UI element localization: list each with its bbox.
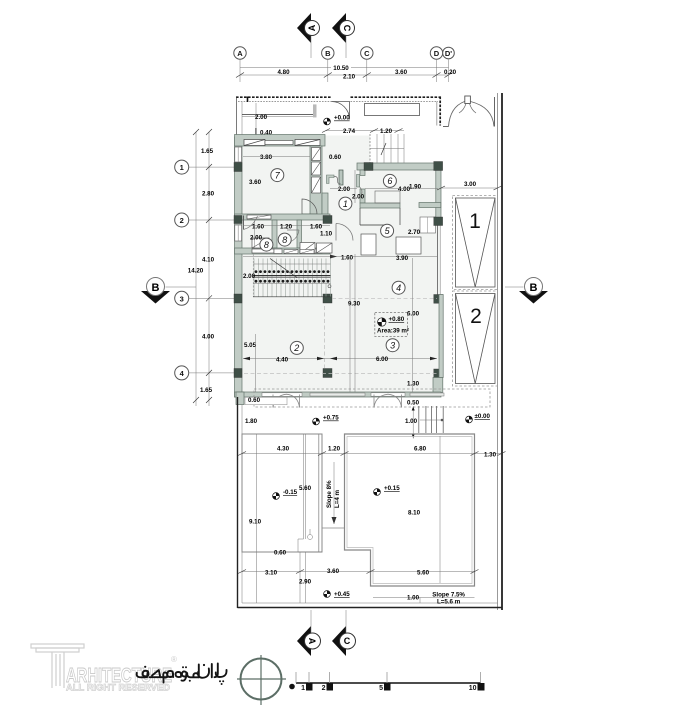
top grid annotations (234, 13, 457, 82)
svg-text:A: A (237, 49, 243, 58)
svg-text:3.10: 3.10 (265, 569, 278, 576)
grid stems (239, 59, 241, 82)
parking spot 2 (453, 291, 498, 386)
parking spot 1 (453, 196, 498, 290)
exterior stair top right (419, 406, 443, 433)
svg-text:4.10: 4.10 (202, 256, 215, 263)
svg-text:C: C (364, 49, 370, 58)
svg-text:3.90: 3.90 (396, 255, 409, 262)
grid circle D' (443, 47, 455, 59)
svg-text:1: 1 (301, 685, 305, 692)
yard dim row (242, 453, 322, 455)
svg-text:2.00: 2.00 (352, 194, 365, 201)
right thin wall of building (437, 226, 439, 295)
svg-text:0.50: 0.50 (407, 400, 420, 407)
svg-text:-0.15: -0.15 (283, 489, 298, 496)
svg-text:2: 2 (470, 305, 482, 328)
svg-text:+0.75: +0.75 (323, 415, 339, 422)
svg-text:Slope 8%: Slope 8% (326, 480, 333, 508)
planter box top (365, 104, 420, 116)
svg-text:1.10: 1.10 (320, 231, 333, 238)
svg-text:6.00: 6.00 (407, 311, 420, 318)
columns row grid4 (234, 369, 242, 378)
grid dashed line 4 (244, 373, 437, 375)
section marker A top (297, 13, 320, 58)
svg-text:9.10: 9.10 (249, 519, 262, 526)
svg-text:3.60: 3.60 (395, 69, 408, 76)
svg-text:1.00: 1.00 (407, 595, 420, 602)
svg-text:1: 1 (180, 163, 184, 172)
interior dim texts (243, 154, 438, 407)
svg-text:1.20: 1.20 (328, 446, 341, 453)
svg-text:Area:39 m²: Area:39 m² (377, 328, 409, 335)
grid dashed vertical (324, 306, 326, 368)
svg-text:®: ® (171, 655, 177, 664)
svg-text:D: D (434, 49, 440, 58)
svg-text:4: 4 (396, 283, 401, 293)
svg-text:1.00: 1.00 (405, 418, 418, 425)
door room7 arc (302, 199, 317, 214)
svg-text:8: 8 (264, 240, 269, 250)
svg-text:2.10: 2.10 (343, 74, 356, 81)
dim verticals (195, 132, 197, 406)
svg-text:D': D' (445, 49, 452, 58)
svg-text:3: 3 (390, 340, 395, 350)
svg-text:4.40: 4.40 (276, 356, 289, 363)
open space divider dashed (354, 254, 356, 392)
vertical dim line 9.30 (412, 258, 414, 392)
svg-text:2.00: 2.00 (243, 273, 256, 280)
svg-text:2.00: 2.00 (338, 186, 351, 193)
level marker +0.00 top (324, 115, 351, 125)
svg-text:3: 3 (180, 294, 184, 303)
svg-text:2.74: 2.74 (343, 128, 356, 135)
persian title (137, 664, 227, 683)
rooms8 top wall (235, 214, 331, 220)
svg-text:1.60: 1.60 (310, 223, 323, 230)
svg-text:8: 8 (282, 235, 287, 245)
grid circle C (361, 47, 373, 59)
svg-text:C: C (342, 25, 352, 32)
logo column icon (31, 644, 84, 688)
svg-text:5: 5 (379, 685, 383, 692)
svg-text:+0.45: +0.45 (334, 591, 350, 598)
bottom wall building (235, 392, 442, 397)
section marker B right (505, 278, 548, 304)
north circle (237, 655, 286, 705)
right boundary wall (498, 93, 503, 610)
wall under rooms8 (mid wall) (235, 248, 331, 254)
svg-text:5.60: 5.60 (299, 485, 312, 492)
entry door top arc (332, 102, 350, 120)
svg-text:B: B (325, 49, 331, 58)
svg-text:1.30: 1.30 (484, 452, 497, 459)
level +0.45 (324, 591, 351, 598)
svg-text:2.00: 2.00 (255, 114, 268, 121)
svg-text:2.90: 2.90 (299, 579, 312, 586)
svg-text:0.20: 0.20 (444, 69, 457, 76)
svg-text:6: 6 (387, 176, 392, 186)
grid circle 4 (175, 366, 189, 380)
top boundary hatched wall left part (236, 97, 332, 103)
svg-text:3.00: 3.00 (464, 181, 477, 188)
svg-text:1.60: 1.60 (341, 255, 354, 262)
yard outer walls (237, 397, 239, 608)
top boundary hatched wall right part (351, 97, 442, 126)
svg-text:1.20: 1.20 (380, 128, 393, 135)
svg-text:10.50: 10.50 (333, 65, 349, 72)
svg-text:1: 1 (343, 199, 348, 209)
top wall room7 (235, 135, 326, 147)
porch rail line (242, 114, 316, 116)
porch door arcs (273, 394, 402, 407)
right bed (345, 434, 475, 586)
svg-text:4.80: 4.80 (277, 69, 290, 76)
dim line 10.50 (240, 67, 449, 69)
level +-0.00 yard (466, 413, 491, 423)
svg-text:4.30: 4.30 (277, 446, 290, 453)
svg-text:ALL RIGHT RESERVED: ALL RIGHT RESERVED (66, 683, 171, 693)
rooms8 divider walls (272, 220, 277, 248)
door arc room1 to hall (336, 224, 353, 241)
svg-text:0.60: 0.60 (329, 154, 342, 161)
hall walls right of room7 (322, 193, 328, 218)
svg-text:4.00: 4.00 (202, 333, 215, 340)
svg-text:14.20: 14.20 (188, 268, 204, 275)
grid dashed line 3 right (332, 297, 437, 299)
svg-text:6.00: 6.00 (376, 356, 389, 363)
grid circle B (322, 47, 334, 59)
section marker A bottom (297, 610, 321, 656)
svg-text:1.80: 1.80 (245, 418, 258, 425)
dim 2.74 / 1.20 row (326, 130, 404, 132)
column right mid (434, 295, 443, 304)
grid circle 1 (175, 160, 189, 174)
parking area (437, 181, 502, 386)
left corner porch block (236, 392, 244, 405)
bottom title block (31, 644, 485, 705)
grid circle D (430, 47, 442, 59)
room7 right wall / duct (310, 146, 322, 218)
section marker C top (332, 13, 355, 58)
yard (238, 397, 506, 608)
door arcs rooms8 (243, 216, 245, 230)
level +0.15 (374, 485, 401, 495)
svg-text:2: 2 (293, 343, 299, 353)
svg-text:0.60: 0.60 (274, 550, 287, 557)
svg-text:B: B (152, 282, 160, 294)
room6/5 divider (360, 203, 400, 208)
room floor fill (242, 136, 441, 393)
room1 walls small (340, 170, 342, 185)
svg-text:3.60: 3.60 (249, 179, 262, 186)
mid-left stairs (253, 254, 331, 297)
svg-text:1.90: 1.90 (409, 184, 422, 191)
room5 fixtures (361, 234, 376, 255)
ramp corridor (319, 434, 345, 552)
window in top wall (244, 140, 265, 146)
left thin wall top band (236, 97, 238, 137)
stairs top center (370, 134, 404, 163)
svg-text:0.60: 0.60 (248, 397, 261, 404)
section marker C bottom (332, 610, 356, 656)
mid wall window boxes (274, 249, 314, 254)
svg-text:1.20: 1.20 (280, 223, 293, 230)
svg-text:+0.80: +0.80 (389, 316, 405, 323)
driveway double gate arcs (443, 96, 495, 127)
svg-text:B: B (530, 282, 538, 294)
svg-text:L=4 m: L=4 m (334, 489, 341, 508)
svg-text:10: 10 (469, 685, 477, 692)
porch dashed (254, 389, 490, 407)
fixtures rooms8 (300, 243, 315, 254)
columns row grid3 (234, 294, 242, 303)
grid circle A (234, 47, 246, 59)
svg-text:+0.00: +0.00 (334, 115, 350, 122)
left bed (242, 434, 322, 552)
columns row grid1 (234, 163, 242, 172)
svg-text:5.60: 5.60 (417, 569, 430, 576)
room6 block top wall (357, 163, 441, 170)
columns row grid2 (234, 216, 242, 224)
svg-text:A: A (307, 24, 317, 31)
room labels (260, 169, 405, 355)
scale bar (289, 672, 484, 692)
svg-text:1.65: 1.65 (201, 148, 214, 155)
svg-text:3.60: 3.60 (327, 568, 340, 575)
columns room6 top (364, 163, 373, 171)
step detail (298, 529, 322, 552)
level +0.75 (313, 415, 340, 425)
section marker B left (141, 278, 196, 304)
svg-text:A: A (307, 638, 317, 645)
svg-text:2.80: 2.80 (202, 191, 215, 198)
svg-text:8.10: 8.10 (408, 509, 421, 516)
svg-text:1.60: 1.60 (252, 223, 265, 230)
svg-text:2: 2 (180, 216, 184, 225)
svg-text:1.65: 1.65 (200, 387, 213, 394)
svg-text:Slope 7.5%: Slope 7.5% (432, 592, 465, 599)
main left wall (235, 137, 243, 397)
dim line row2 (240, 74, 449, 76)
bottom dim row (242, 571, 475, 573)
building (234, 93, 502, 610)
grid circle 3 (175, 291, 189, 305)
svg-text:+0.15: +0.15 (384, 485, 400, 492)
svg-text:C: C (344, 636, 351, 646)
svg-text:±0.00: ±0.00 (475, 413, 491, 420)
room6 right wall (436, 168, 441, 218)
svg-text:2.70: 2.70 (408, 229, 421, 236)
level -0.15 (273, 489, 298, 499)
left grid annotations (141, 129, 236, 406)
svg-text:2: 2 (322, 685, 326, 692)
svg-text:1: 1 (469, 210, 481, 233)
svg-text:2.00: 2.00 (250, 235, 263, 242)
svg-text:3.80: 3.80 (260, 154, 273, 161)
svg-text:1.30: 1.30 (407, 381, 420, 388)
grid circle 2 (175, 213, 189, 227)
area box (375, 313, 409, 337)
svg-text:5.05: 5.05 (244, 342, 257, 349)
lower path lines (299, 552, 301, 603)
room5 interior lines (359, 208, 361, 225)
svg-text:L=5.6 m: L=5.6 m (437, 599, 461, 606)
svg-text:6.80: 6.80 (414, 446, 427, 453)
